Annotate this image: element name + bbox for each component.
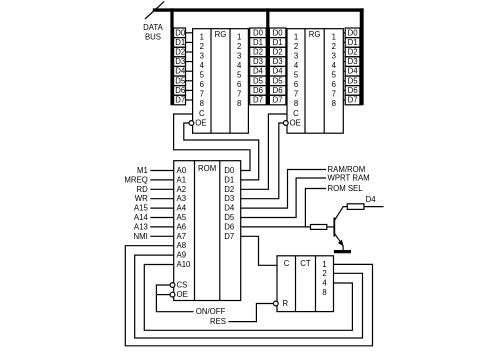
- svg-text:8: 8: [237, 99, 241, 108]
- svg-text:ROM: ROM: [198, 164, 216, 173]
- wire D6 stub to RG1: [186, 89, 193, 91]
- svg-text:7: 7: [294, 89, 298, 98]
- svg-text:2: 2: [294, 42, 298, 51]
- svg-text:C: C: [284, 259, 290, 268]
- svg-text:D0: D0: [253, 28, 264, 37]
- svg-text:D1: D1: [273, 38, 283, 47]
- svg-text:D1: D1: [253, 38, 263, 47]
- svg-text:5: 5: [200, 70, 205, 79]
- svg-text:D4: D4: [224, 204, 235, 213]
- svg-text:A15: A15: [134, 204, 149, 213]
- svg-text:5: 5: [332, 70, 337, 79]
- pin OE (ROM) with bubble: [170, 292, 175, 297]
- svg-text:OE: OE: [195, 119, 206, 128]
- wire D2 stub to RG1: [186, 51, 193, 53]
- wire data-bus top horizontal: [153, 8, 364, 11]
- svg-text:A0: A0: [177, 166, 187, 175]
- node D4 box (left-bus): [174, 66, 186, 76]
- node D5 box (mid-right): [269, 76, 286, 86]
- svg-text:8: 8: [332, 99, 336, 108]
- svg-text:4: 4: [332, 61, 337, 70]
- svg-text:RES: RES: [210, 317, 226, 326]
- svg-text:D3: D3: [253, 57, 263, 66]
- resistor R1 (base): [311, 225, 327, 230]
- svg-text:A9: A9: [177, 251, 187, 260]
- svg-text:R: R: [283, 299, 289, 308]
- node D6 box (left-bus): [174, 86, 186, 96]
- svg-text:D5: D5: [224, 213, 235, 222]
- wire D7 stub from RG2: [343, 99, 345, 101]
- svg-text:A14: A14: [134, 213, 149, 222]
- wire ROM OE to ON/OFF vertical: [156, 294, 170, 296]
- svg-text:D1: D1: [175, 38, 185, 47]
- net ROM-D1 to RG1 pin OE: [184, 123, 259, 180]
- node D5 box (right-bus): [345, 76, 360, 86]
- svg-text:M1: M1: [137, 166, 148, 175]
- wire D5 stub to RG1: [186, 80, 193, 82]
- svg-text:D0: D0: [348, 28, 359, 37]
- svg-text:A8: A8: [177, 241, 187, 250]
- wire A14 to ROM A5: [150, 217, 173, 219]
- node D2 box (right-bus): [345, 47, 360, 57]
- svg-text:3: 3: [200, 51, 204, 60]
- svg-text:D2: D2: [348, 48, 358, 57]
- svg-text:D4: D4: [366, 195, 377, 204]
- node D4 box (mid-left): [250, 66, 267, 76]
- node D2 box (mid-left): [250, 47, 267, 57]
- wire D4 stub to RG1: [186, 70, 193, 72]
- node D7 box (mid-left): [250, 95, 267, 105]
- node D6 box (right-bus): [345, 86, 360, 96]
- node D1 box (left-bus): [174, 38, 186, 48]
- svg-text:D5: D5: [175, 76, 186, 85]
- svg-text:3: 3: [294, 51, 298, 60]
- svg-text:7: 7: [200, 89, 204, 98]
- net ROM SEL branch to base node: [305, 189, 326, 227]
- svg-text:D5: D5: [348, 76, 359, 85]
- svg-text:6: 6: [332, 80, 336, 89]
- svg-text:2: 2: [322, 269, 326, 278]
- svg-text:D0: D0: [273, 28, 284, 37]
- svg-text:DATA: DATA: [143, 23, 163, 32]
- net ROM-D3 to RG2 pin OE: [241, 123, 284, 199]
- wire R2 to D4: [364, 206, 384, 208]
- svg-text:D7: D7: [224, 232, 234, 241]
- svg-text:1: 1: [332, 32, 336, 41]
- node D7 box (mid-right): [269, 95, 286, 105]
- svg-text:A5: A5: [177, 213, 187, 222]
- net CT-out4 to ROM A10: [144, 265, 352, 331]
- node D3 box (right-bus): [345, 57, 360, 67]
- wire data-bus left vertical: [170, 8, 173, 105]
- node D0 box (mid-left): [250, 28, 267, 38]
- transistor Q1 collector: [335, 207, 348, 220]
- svg-text:8: 8: [322, 288, 326, 297]
- svg-text:5: 5: [237, 70, 242, 79]
- svg-text:C: C: [199, 109, 205, 118]
- wire D1 stub from RG2: [343, 41, 345, 43]
- node D0 box (right-bus): [345, 28, 360, 38]
- node D7 box (right-bus): [345, 95, 360, 105]
- svg-text:2: 2: [237, 42, 241, 51]
- svg-text:D0: D0: [175, 28, 186, 37]
- svg-text:D5: D5: [253, 76, 264, 85]
- svg-text:1: 1: [294, 32, 298, 41]
- svg-text:D2: D2: [273, 48, 283, 57]
- svg-text:RG: RG: [309, 30, 321, 39]
- svg-text:ON/OFF: ON/OFF: [196, 307, 226, 316]
- svg-text:3: 3: [237, 51, 241, 60]
- svg-text:D4: D4: [273, 67, 284, 76]
- svg-text:A10: A10: [177, 260, 192, 269]
- svg-text:D0: D0: [224, 166, 235, 175]
- resistor R2 (collector): [347, 204, 364, 210]
- svg-text:ROM SEL: ROM SEL: [328, 184, 364, 193]
- wire R1 to Q1 base: [327, 226, 334, 228]
- node D5 box (mid-left): [250, 76, 267, 86]
- svg-text:7: 7: [332, 89, 336, 98]
- node D5 box (left-bus): [174, 76, 186, 86]
- node D6 box (mid-left): [250, 86, 267, 96]
- node D1 box (mid-right): [269, 38, 286, 48]
- svg-text:8: 8: [294, 99, 298, 108]
- svg-text:D7: D7: [348, 96, 358, 105]
- svg-text:2: 2: [332, 42, 336, 51]
- node D3 box (mid-left): [250, 57, 267, 67]
- node D7 box (left-bus): [174, 95, 186, 105]
- svg-text:1: 1: [322, 260, 326, 269]
- net ROM-D4 to RAM/ROM: [241, 170, 326, 209]
- svg-text:3: 3: [332, 51, 336, 60]
- net ROM-D0 to RG1 pin C: [174, 114, 250, 171]
- svg-text:4: 4: [237, 61, 242, 70]
- pin CS (ROM) with bubble: [170, 283, 175, 288]
- svg-text:D1: D1: [224, 175, 234, 184]
- svg-text:D4: D4: [175, 67, 186, 76]
- svg-text:C: C: [293, 109, 299, 118]
- svg-text:7: 7: [237, 89, 241, 98]
- node D3 box (left-bus): [174, 57, 186, 67]
- svg-text:D4: D4: [348, 67, 359, 76]
- svg-text:D1: D1: [348, 38, 358, 47]
- svg-text:D6: D6: [273, 86, 283, 95]
- ROM U3 body: [174, 161, 241, 301]
- svg-text:A1: A1: [177, 175, 187, 184]
- svg-text:D7: D7: [175, 96, 185, 105]
- wire M1 to ROM A0: [150, 170, 173, 172]
- node D1 box (right-bus): [345, 38, 360, 48]
- wire D2 stub from RG2: [343, 51, 345, 53]
- svg-text:2: 2: [200, 42, 204, 51]
- wire WR to ROM A3: [150, 198, 173, 200]
- svg-text:A13: A13: [134, 222, 148, 231]
- svg-text:4: 4: [200, 61, 205, 70]
- svg-text:D6: D6: [224, 222, 234, 231]
- svg-text:WPRT RAM: WPRT RAM: [328, 174, 370, 183]
- svg-text:D5: D5: [273, 76, 284, 85]
- wire D3 stub from RG2: [343, 61, 345, 63]
- net CT-out2 to ROM A9: [135, 255, 363, 338]
- svg-text:WR: WR: [135, 194, 148, 203]
- node D6 box (mid-right): [269, 86, 286, 96]
- pin R (CT1) with bubble: [273, 301, 278, 306]
- pin OE (RG2) with bubble: [283, 121, 288, 126]
- svg-text:D3: D3: [273, 57, 283, 66]
- svg-text:RD: RD: [137, 185, 149, 194]
- svg-text:5: 5: [294, 70, 299, 79]
- svg-text:A2: A2: [177, 185, 187, 194]
- register RG2 body: [287, 29, 343, 134]
- node D0 box (mid-right): [269, 28, 286, 38]
- svg-text:D2: D2: [175, 48, 185, 57]
- svg-text:D3: D3: [175, 57, 185, 66]
- wire data-bus middle vertical: [266, 8, 269, 105]
- transistor Q1 base bar: [333, 218, 335, 237]
- transistor Q1 emitter with arrow: [335, 234, 343, 245]
- register RG1 body: [193, 29, 249, 134]
- svg-text:RG: RG: [215, 30, 227, 39]
- node D3 box (mid-right): [269, 57, 286, 67]
- svg-text:A3: A3: [177, 194, 187, 203]
- wire D4 stub from RG2: [343, 70, 345, 72]
- wire MREQ to ROM A1: [150, 179, 173, 181]
- net RES to counter R: [229, 304, 274, 322]
- wire D3 stub to RG1: [186, 61, 193, 63]
- svg-text:OE: OE: [177, 290, 188, 299]
- svg-text:MREQ: MREQ: [124, 175, 147, 184]
- svg-text:A4: A4: [177, 204, 187, 213]
- net CT-out1 to ROM A8: [125, 246, 372, 346]
- net ROM-D7 to counter C input: [241, 236, 277, 265]
- wire D0 stub from RG2: [343, 32, 345, 34]
- svg-text:CT: CT: [300, 259, 311, 268]
- wire D0 stub to RG1: [186, 32, 193, 34]
- node D2 box (mid-right): [269, 47, 286, 57]
- svg-text:D7: D7: [253, 96, 263, 105]
- pin OE (RG1) with bubble: [189, 121, 194, 126]
- wire A15 to ROM A4: [150, 207, 173, 209]
- svg-text:4: 4: [322, 279, 327, 288]
- svg-text:BUS: BUS: [145, 33, 161, 42]
- svg-text:D6: D6: [253, 86, 263, 95]
- svg-text:D3: D3: [224, 194, 234, 203]
- wire data-bus right vertical: [360, 8, 364, 105]
- svg-text:A7: A7: [177, 232, 187, 241]
- svg-text:D7: D7: [273, 96, 283, 105]
- wire D6 stub from RG2: [343, 89, 345, 91]
- wire RD to ROM A2: [150, 188, 173, 190]
- svg-text:CS: CS: [177, 281, 188, 290]
- svg-text:D2: D2: [224, 185, 234, 194]
- node D2 box (left-bus): [174, 47, 186, 57]
- svg-text:1: 1: [237, 32, 241, 41]
- wire NMI to ROM A7: [150, 235, 173, 237]
- svg-text:D6: D6: [348, 86, 358, 95]
- svg-text:8: 8: [200, 99, 204, 108]
- svg-text:6: 6: [294, 80, 298, 89]
- node D4 box (mid-right): [269, 66, 286, 76]
- svg-text:NMI: NMI: [134, 232, 148, 241]
- svg-text:6: 6: [200, 80, 204, 89]
- svg-text:OE: OE: [290, 119, 301, 128]
- svg-text:4: 4: [294, 61, 299, 70]
- wire D1 stub to RG1: [186, 41, 193, 43]
- net ROM-D2 to RG2 pin C: [241, 114, 287, 189]
- svg-text:6: 6: [237, 80, 241, 89]
- wire emitter to ground: [342, 245, 344, 250]
- svg-text:D3: D3: [348, 57, 358, 66]
- svg-text:A6: A6: [177, 222, 187, 231]
- counter CT1 body: [277, 256, 334, 312]
- wire A13 to ROM A6: [150, 226, 173, 228]
- net ON/OFF to ROM CS and OE: [156, 285, 193, 312]
- node D4 box (right-bus): [345, 66, 360, 76]
- svg-text:D2: D2: [253, 48, 263, 57]
- svg-text:1: 1: [200, 32, 204, 41]
- svg-text:D4: D4: [253, 67, 264, 76]
- ground: [334, 250, 351, 253]
- svg-text:D6: D6: [175, 86, 185, 95]
- wire D7 stub to RG1: [186, 99, 193, 101]
- bus width slash mark: [145, 1, 164, 19]
- node D1 box (mid-left): [250, 38, 267, 48]
- node D0 box (left-bus): [174, 28, 186, 38]
- wire D5 stub from RG2: [343, 80, 345, 82]
- net ROM-D6 to resistor R1: [241, 226, 311, 228]
- net ROM-D5 to WPRT RAM: [241, 178, 326, 218]
